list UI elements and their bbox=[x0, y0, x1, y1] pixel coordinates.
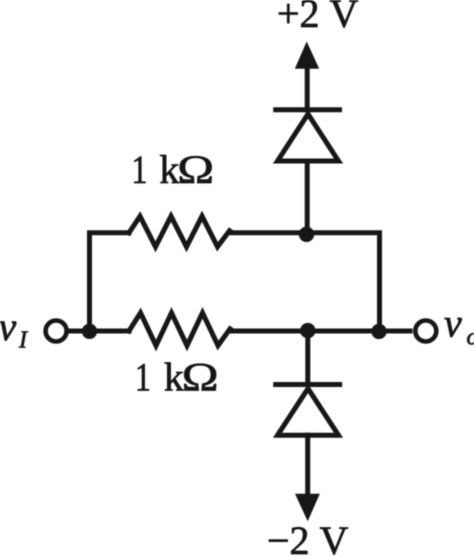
svg-text:+2 V: +2 V bbox=[277, 0, 359, 36]
svg-text:−2 V: −2 V bbox=[267, 518, 349, 556]
svg-text:1: 1 bbox=[132, 148, 148, 192]
svg-text:Ω: Ω bbox=[177, 147, 214, 191]
svg-text:1: 1 bbox=[135, 355, 151, 399]
svg-text:v: v bbox=[444, 301, 462, 346]
svg-text:v: v bbox=[0, 304, 17, 349]
svg-text:o: o bbox=[467, 325, 474, 351]
svg-text:I: I bbox=[18, 328, 28, 354]
svg-text:Ω: Ω bbox=[182, 355, 219, 399]
